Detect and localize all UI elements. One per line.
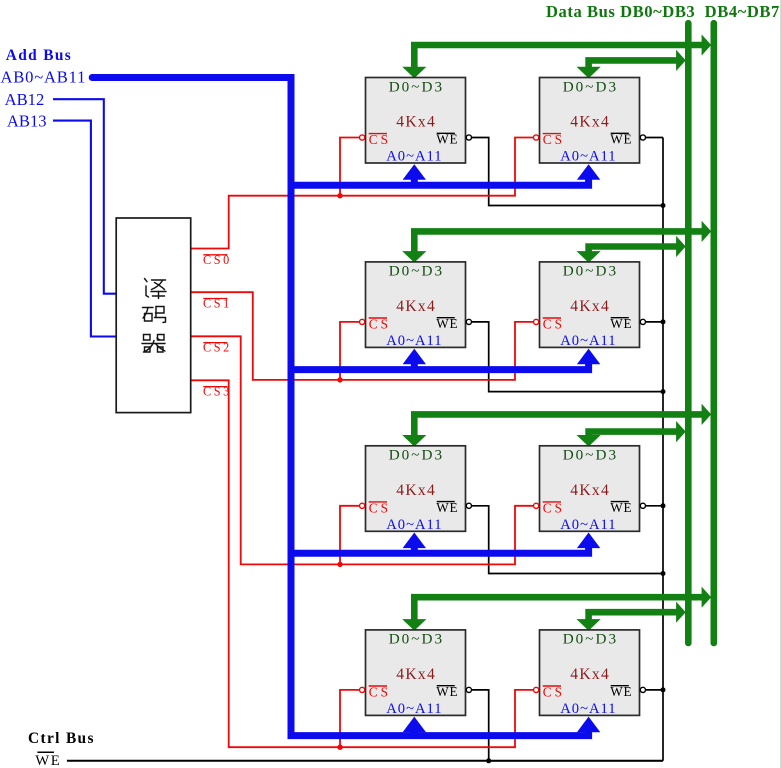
wire WE from chip U3 pin WE down and right to WE bus bbox=[471, 322, 663, 392]
arrowhead data run row 3 into vertical bus bbox=[702, 404, 712, 425]
wire AB12 to decoder bbox=[53, 99, 116, 294]
bus data run row 4 chip U7 (upper) bbox=[414, 597, 703, 621]
bus AB0~AB11 stem into chip U7 bbox=[411, 730, 418, 736]
bus data run row 2 chip U4 (lower) bbox=[589, 247, 678, 254]
arrowhead data into chip U6 bbox=[577, 435, 601, 447]
pin bubble CS of chip U2 bbox=[534, 135, 539, 140]
bus data run row 4 chip U8 (lower) bbox=[589, 612, 678, 621]
pin bubble WE of chip U4 bbox=[640, 319, 645, 324]
arrowhead data into chip U3 bbox=[402, 251, 426, 263]
svg-text:D0~D3: D0~D3 bbox=[563, 447, 618, 464]
svg-text:4Kx4: 4Kx4 bbox=[396, 298, 436, 315]
memory chip U3 (4Kx4) row 2 col 1 bbox=[366, 262, 466, 349]
arrowhead data into chip U4 bbox=[577, 251, 601, 263]
svg-text:D0~D3: D0~D3 bbox=[389, 631, 444, 648]
bus data run row 3 chip U6 (lower) bbox=[589, 432, 678, 438]
bus AB0~AB11 branch row 3 bbox=[291, 546, 589, 554]
pin bubble CS of chip U1 bbox=[360, 135, 365, 140]
bus data run row 1 chip U1 (upper) bbox=[414, 45, 703, 69]
decoder label 译 bbox=[145, 279, 167, 299]
svg-text:D0~D3: D0~D3 bbox=[563, 78, 618, 95]
junction WE bus / chip U8 stub bbox=[661, 687, 666, 692]
wire WE vertical bus (net WE, right side) bbox=[662, 138, 664, 761]
wire CS0 stub to chip U1 CS pin bbox=[340, 138, 359, 196]
wire CS3 stub to chip U7 CS pin bbox=[340, 690, 359, 747]
junction WE bus / chip U5 row line bbox=[661, 571, 666, 576]
svg-text:D0~D3: D0~D3 bbox=[389, 447, 444, 464]
arrowhead data into chip U8 bbox=[577, 619, 601, 631]
svg-text:A0~A11: A0~A11 bbox=[560, 333, 616, 349]
pin bubble WE of chip U3 bbox=[466, 319, 471, 324]
wire WE from chip U6 pin WE to WE bus bbox=[645, 505, 663, 507]
pin bubble CS of chip U3 bbox=[360, 319, 365, 324]
pin bubble CS of chip U5 bbox=[360, 503, 365, 508]
bus DB0~DB3 vertical bbox=[685, 23, 692, 643]
svg-text:4Kx4: 4Kx4 bbox=[570, 114, 610, 131]
wire CS1 stub to chip U3 CS pin bbox=[340, 322, 359, 380]
wire Ctrl Bus WE horizontal line at bottom bbox=[67, 760, 663, 762]
memory chip U2 (4Kx4) row 1 col 2 bbox=[540, 78, 640, 165]
arrowhead address into chip U2 bbox=[577, 164, 600, 180]
memory chip U4 (4Kx4) row 2 col 2 bbox=[540, 262, 640, 349]
svg-text:4Kx4: 4Kx4 bbox=[396, 482, 436, 499]
arrowhead data run row 1 into vertical bus bbox=[702, 34, 712, 55]
junction WE bus / chip U4 stub bbox=[661, 319, 666, 324]
svg-text:D0~D3: D0~D3 bbox=[389, 78, 444, 95]
wire CS3 from decoder to row 4 chips bbox=[191, 380, 534, 747]
junction WE bus / chip U3 row line bbox=[661, 389, 666, 394]
wire WE from chip U4 pin WE to WE bus bbox=[645, 321, 663, 323]
wire CS2 stub to chip U5 CS pin bbox=[340, 506, 359, 565]
arrowhead data run row 2 into vertical bus bbox=[676, 236, 686, 257]
pin bubble CS of chip U4 bbox=[534, 319, 539, 324]
decoder label 码 bbox=[143, 307, 166, 323]
arrowhead address into chip U8 bbox=[577, 717, 600, 733]
wire WE from chip U5 pin WE down and right to WE bus bbox=[471, 506, 663, 574]
bus data run row 1 chip U2 (lower) bbox=[589, 60, 678, 69]
bus data run row 3 chip U5 (upper) bbox=[414, 414, 703, 437]
pin bubble WE of chip U6 bbox=[640, 503, 645, 508]
arrowhead data into chip U5 bbox=[402, 435, 426, 447]
wire CS2 from decoder to row 3 chips bbox=[191, 336, 534, 564]
svg-text:4Kx4: 4Kx4 bbox=[396, 666, 436, 683]
svg-text:A0~A11: A0~A11 bbox=[386, 701, 442, 717]
pin bubble CS of chip U6 bbox=[534, 503, 539, 508]
wire CS0 from decoder to row 1 chips bbox=[191, 138, 534, 249]
svg-text:A0~A11: A0~A11 bbox=[560, 517, 616, 533]
svg-text:A0~A11: A0~A11 bbox=[386, 333, 442, 349]
arrowhead data into chip U2 bbox=[577, 67, 601, 79]
pin bubble WE of chip U8 bbox=[640, 687, 645, 692]
junction WE bus / chip U1 row line bbox=[661, 203, 666, 208]
pin bubble WE of chip U1 bbox=[466, 135, 471, 140]
right window edge line bbox=[780, 0, 782, 768]
svg-text:Add Bus: Add Bus bbox=[6, 47, 72, 64]
bus AB0~AB11 stem into chip U5 bbox=[411, 546, 418, 554]
bus AB0~AB11 stem into chip U1 bbox=[411, 178, 418, 186]
memory chip U8 (4Kx4) row 4 col 2 bbox=[540, 630, 640, 717]
decoder label 器 bbox=[142, 335, 165, 353]
svg-text:AB13: AB13 bbox=[7, 111, 47, 130]
svg-text:A0~A11: A0~A11 bbox=[386, 149, 442, 165]
svg-text:4Kx4: 4Kx4 bbox=[570, 482, 610, 499]
memory chip U5 (4Kx4) row 3 col 1 bbox=[366, 446, 466, 533]
bus AB0~AB11 main run: top run and vertical trunk and row4 run bbox=[92, 78, 588, 736]
arrowhead data into chip U7 bbox=[402, 619, 426, 631]
junction WE bus / chip U6 stub bbox=[661, 503, 666, 508]
svg-text:4Kx4: 4Kx4 bbox=[570, 666, 610, 683]
wire WE from chip U8 pin WE to WE bus bbox=[645, 689, 663, 691]
svg-text:4Kx4: 4Kx4 bbox=[570, 298, 610, 315]
pin bubble WE of chip U2 bbox=[640, 135, 645, 140]
wire WE from chip U2 pin WE to WE bus bbox=[645, 137, 663, 139]
pin bubble WE of chip U7 bbox=[466, 687, 471, 692]
arrowhead data run row 4 into vertical bus bbox=[702, 587, 712, 608]
memory chip U7 (4Kx4) row 4 col 1 bbox=[366, 630, 466, 717]
svg-text:D0~D3: D0~D3 bbox=[563, 263, 618, 280]
memory chip U6 (4Kx4) row 3 col 2 bbox=[540, 446, 640, 533]
arrowhead data into chip U1 bbox=[402, 67, 426, 79]
junction chip U7 WE drop on Ctrl Bus WE line bbox=[486, 758, 491, 763]
svg-text:A0~A11: A0~A11 bbox=[560, 149, 616, 165]
wire CS1 from decoder to row 2 chips bbox=[191, 292, 534, 380]
wire AB13 to decoder bbox=[53, 121, 116, 337]
wire WE from chip U1 pin WE down and right to WE bus bbox=[471, 138, 663, 206]
junction CS3 line / chip U7 stub bbox=[337, 745, 342, 750]
memory chip U1 (4Kx4) row 1 col 1 bbox=[366, 78, 466, 165]
arrowhead data run row 4 into vertical bus bbox=[676, 602, 686, 623]
svg-text:D0~D3: D0~D3 bbox=[389, 263, 444, 280]
pin bubble CS of chip U8 bbox=[534, 687, 539, 692]
svg-text:AB0~AB11: AB0~AB11 bbox=[1, 67, 87, 86]
pin bubble WE of chip U5 bbox=[466, 503, 471, 508]
svg-text:Ctrl Bus: Ctrl Bus bbox=[28, 730, 95, 747]
arrowhead data run row 1 into vertical bus bbox=[676, 50, 686, 71]
svg-text:D0~D3: D0~D3 bbox=[563, 631, 618, 648]
svg-text:4Kx4: 4Kx4 bbox=[396, 114, 436, 131]
svg-text:A0~A11: A0~A11 bbox=[386, 517, 442, 533]
pin bubble CS of chip U7 bbox=[360, 687, 365, 692]
svg-text:Data Bus DB0~DB3 DB4~DB7: Data Bus DB0~DB3 DB4~DB7 bbox=[546, 2, 780, 21]
arrowhead address into chip U1 bbox=[403, 164, 426, 180]
svg-text:A0~A11: A0~A11 bbox=[560, 701, 616, 717]
arrowhead address into chip U6 bbox=[577, 533, 600, 549]
svg-text:AB12: AB12 bbox=[5, 90, 45, 109]
bus AB0~AB11 branch row 1 bbox=[291, 178, 589, 186]
arrowhead address into chip U4 bbox=[577, 349, 600, 365]
bus DB4~DB7 vertical bbox=[710, 23, 717, 643]
junction CS2 line / chip U5 stub bbox=[337, 562, 342, 567]
arrowhead address into chip U7 bbox=[403, 717, 426, 733]
svg-text:WE: WE bbox=[35, 753, 61, 768]
bus data run row 2 chip U3 (upper) bbox=[414, 231, 703, 253]
wire WE from chip U7 pin WE down and right to WE bus bbox=[471, 690, 663, 761]
junction CS0 line / chip U1 stub bbox=[337, 193, 342, 198]
bus AB0~AB11 stem into chip U3 bbox=[411, 362, 418, 370]
arrowhead address into chip U3 bbox=[403, 349, 426, 365]
arrowhead data run row 2 into vertical bus bbox=[702, 221, 712, 242]
arrowhead data run row 3 into vertical bus bbox=[676, 421, 686, 442]
junction CS1 line / chip U3 stub bbox=[337, 377, 342, 382]
bus AB0~AB11 branch row 2 bbox=[291, 362, 589, 370]
decoder U9 (address decoder) bbox=[116, 218, 191, 413]
arrowhead address into chip U5 bbox=[403, 533, 426, 549]
